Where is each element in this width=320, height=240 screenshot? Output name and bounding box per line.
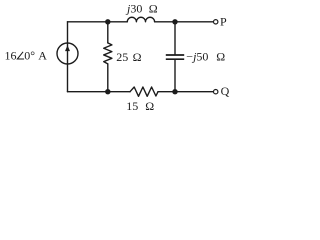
svg-text:−j50: −j50 (186, 49, 208, 63)
svg-text:15: 15 (126, 99, 138, 113)
label source value 16 angle 0 deg A (5, 48, 48, 62)
label -j50 ohm (186, 49, 225, 63)
current source circle (57, 43, 78, 64)
terminal Q open circle (214, 90, 218, 94)
wire top-right segment to P (155, 21, 214, 23)
label j30 ohm (125, 2, 158, 16)
svg-text:25: 25 (116, 50, 128, 64)
junction node: bottom of capacitor branch (172, 89, 177, 94)
junction node: top of 25 ohm branch (105, 19, 110, 24)
svg-text:P: P (220, 15, 227, 29)
svg-text:Ω: Ω (149, 2, 158, 16)
wire right branch bottom (from capacitor) (174, 60, 176, 92)
svg-text:Ω: Ω (216, 49, 225, 63)
current source arrow (65, 45, 70, 51)
resistor R 15 ohm zigzag (130, 87, 158, 96)
junction node: top of capacitor branch (172, 19, 177, 24)
svg-text:A: A (38, 48, 47, 62)
wire left branch (through current source) (67, 22, 69, 92)
resistor R 25 ohm zigzag (104, 43, 112, 64)
capacitor -j50 ohm plates (166, 55, 184, 59)
svg-text:16: 16 (5, 48, 17, 62)
wire bottom-right segment to Q (158, 91, 213, 93)
svg-text:Ω: Ω (133, 50, 142, 64)
wire top-left segment (68, 21, 128, 23)
svg-text:j30: j30 (125, 2, 142, 16)
wire middle branch top (107, 22, 109, 43)
wire bottom-left segment (68, 91, 131, 93)
wire right branch top (to capacitor) (174, 22, 176, 55)
wire middle branch bottom (107, 64, 109, 92)
svg-text:Q: Q (221, 84, 230, 98)
svg-text:0°: 0° (24, 48, 35, 62)
label 25 ohm (116, 50, 141, 64)
terminal P open circle (214, 20, 218, 24)
label 15 ohm (126, 99, 154, 113)
svg-text:Ω: Ω (145, 99, 154, 113)
inductor j30 ohm coil (127, 17, 154, 22)
junction node: bottom of 25 ohm branch (105, 89, 110, 94)
angle symbol of source label (17, 52, 24, 59)
